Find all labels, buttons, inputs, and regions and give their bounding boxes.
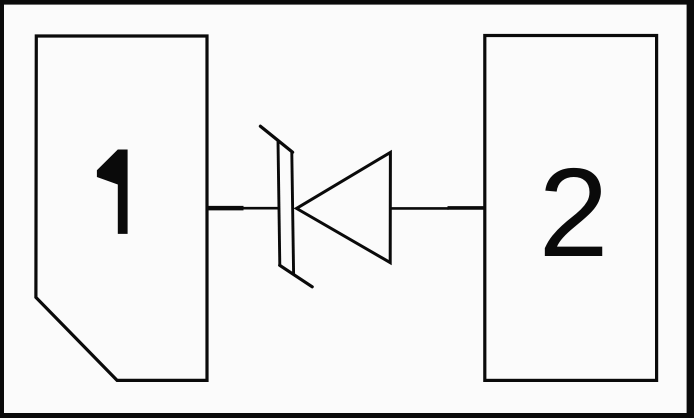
wire left bbox=[243, 207, 280, 210]
connector box 1 bbox=[36, 36, 207, 380]
zener bottom tail bbox=[280, 265, 313, 287]
cathode bar right line bbox=[292, 152, 294, 274]
wire pin2 stub bbox=[448, 206, 486, 210]
svg-text:2: 2 bbox=[538, 142, 608, 283]
cathode bar left line bbox=[278, 141, 280, 265]
zener top tail bbox=[260, 126, 292, 152]
wire pin1 stub bbox=[207, 206, 244, 211]
pin label 1 bbox=[97, 150, 128, 234]
zener diode D1 bbox=[260, 126, 390, 287]
connector box 2 bbox=[485, 36, 657, 381]
wire right bbox=[391, 207, 449, 210]
diode triangle (anode) bbox=[297, 152, 391, 262]
